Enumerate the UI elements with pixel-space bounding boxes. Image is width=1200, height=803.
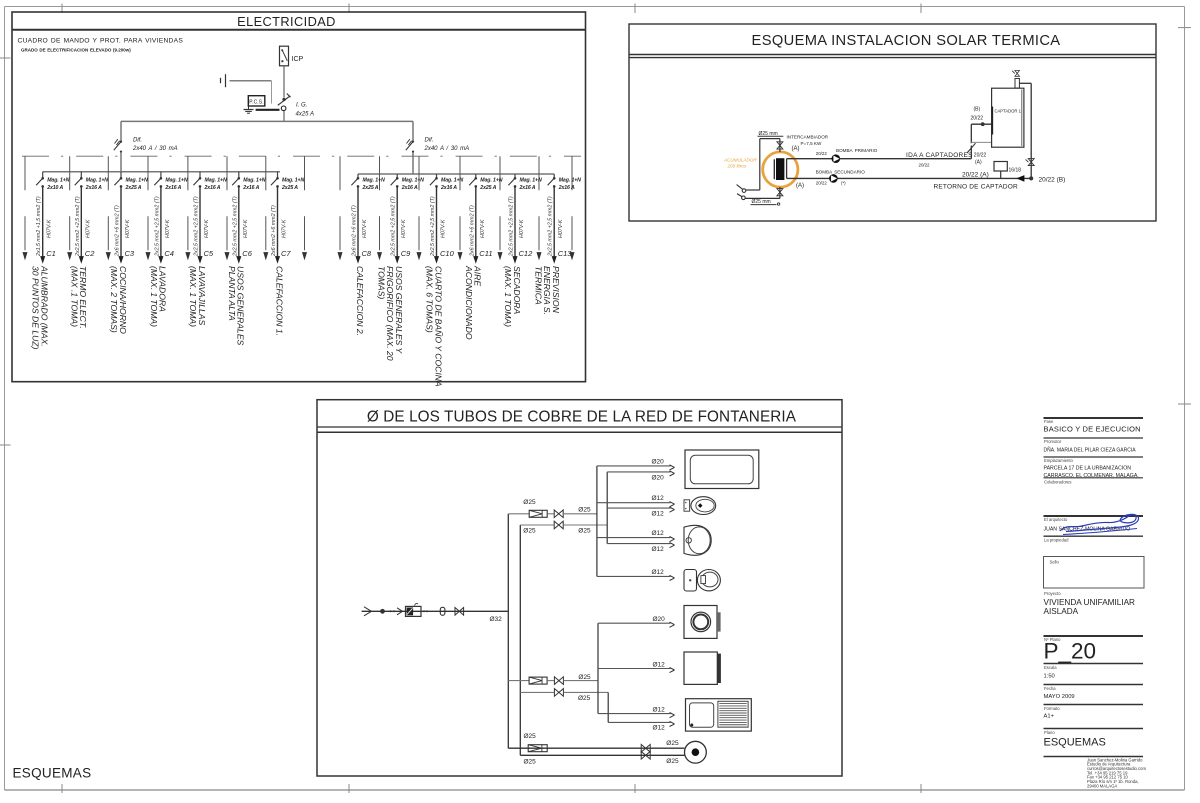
svg-text:2x40 A / 30 mA: 2x40 A / 30 mA bbox=[132, 146, 178, 152]
svg-text:2x16 A: 2x16 A bbox=[401, 185, 418, 191]
svg-text:Mag. 1+N: Mag. 1+N bbox=[559, 178, 581, 184]
svg-text:H07V-K: H07V-K bbox=[441, 219, 447, 238]
svg-text:Dif.: Dif. bbox=[425, 138, 434, 144]
svg-text:ACUMULADOR: ACUMULADOR bbox=[723, 158, 757, 163]
svg-text:C5: C5 bbox=[204, 249, 214, 258]
svg-text:Formato: Formato bbox=[1044, 706, 1060, 711]
svg-text:TOMAS): TOMAS) bbox=[376, 266, 386, 299]
svg-text:H07V-K: H07V-K bbox=[243, 219, 249, 238]
svg-text:2x6 mm2 +6 mm2 (T): 2x6 mm2 +6 mm2 (T) bbox=[115, 205, 121, 257]
svg-text:C10: C10 bbox=[440, 249, 455, 258]
svg-text:BOMBA PRIMARIO: BOMBA PRIMARIO bbox=[836, 148, 878, 153]
svg-text:20/22: 20/22 bbox=[971, 116, 984, 122]
svg-text:DÑA. MARIA DEL PILAR CIEZA GAR: DÑA. MARIA DEL PILAR CIEZA GARCIA bbox=[1044, 447, 1137, 454]
svg-text:Mag. 1+N: Mag. 1+N bbox=[86, 178, 108, 184]
svg-text:2x40 A / 30 mA: 2x40 A / 30 mA bbox=[424, 146, 470, 152]
svg-text:Ø20: Ø20 bbox=[652, 458, 665, 465]
svg-text:Dif.: Dif. bbox=[133, 138, 142, 144]
svg-text:La propiedad: La propiedad bbox=[1044, 538, 1069, 543]
svg-text:2x10 A: 2x10 A bbox=[46, 185, 63, 191]
svg-text:Plano: Plano bbox=[1044, 730, 1055, 735]
svg-text:P_20: P_20 bbox=[1044, 639, 1097, 664]
svg-text:ELECTRICIDAD: ELECTRICIDAD bbox=[237, 14, 336, 29]
svg-text:Ø20: Ø20 bbox=[652, 475, 665, 482]
svg-text:H07V-K: H07V-K bbox=[282, 219, 288, 238]
svg-text:20/22 (A): 20/22 (A) bbox=[962, 172, 989, 179]
svg-text:30 PUNTOS DE LUZ): 30 PUNTOS DE LUZ) bbox=[31, 266, 41, 350]
svg-text:20/22: 20/22 bbox=[816, 181, 828, 186]
svg-text:2x25 A: 2x25 A bbox=[281, 185, 298, 191]
svg-text:Fase: Fase bbox=[1044, 419, 1054, 424]
svg-text:2x16 A: 2x16 A bbox=[440, 185, 457, 191]
svg-text:AISLADA: AISLADA bbox=[1044, 607, 1079, 616]
svg-text:2x6 mm2 +6 mm2 (T): 2x6 mm2 +6 mm2 (T) bbox=[352, 205, 358, 257]
svg-text:Ø25: Ø25 bbox=[523, 499, 536, 506]
svg-text:Mag. 1+N: Mag. 1+N bbox=[402, 178, 424, 184]
svg-text:20/22: 20/22 bbox=[816, 151, 828, 156]
svg-text:C11: C11 bbox=[479, 249, 492, 258]
svg-text:H07V-K: H07V-K bbox=[519, 219, 525, 238]
svg-text:ACONDICIONADO: ACONDICIONADO bbox=[464, 265, 474, 340]
svg-text:Mag. 1+N: Mag. 1+N bbox=[205, 178, 227, 184]
svg-text:2x16 A: 2x16 A bbox=[164, 185, 181, 191]
svg-text:Mag. 1+N: Mag. 1+N bbox=[480, 178, 502, 184]
svg-text:Ø25: Ø25 bbox=[524, 733, 537, 740]
svg-text:Ø12: Ø12 bbox=[653, 661, 666, 668]
svg-text:H07V-K: H07V-K bbox=[85, 219, 91, 238]
svg-text:2x2,5 mm2 +2,5 mm2 (T): 2x2,5 mm2 +2,5 mm2 (T) bbox=[548, 196, 554, 257]
svg-text:(MAX. 2 TOMAS): (MAX. 2 TOMAS) bbox=[109, 266, 119, 333]
svg-text:(MAX. 1 TOMA): (MAX. 1 TOMA) bbox=[188, 266, 198, 327]
svg-text:VIVIENDA UNIFAMILIAR: VIVIENDA UNIFAMILIAR bbox=[1044, 598, 1136, 607]
svg-text:2x16 A: 2x16 A bbox=[85, 185, 102, 191]
svg-text:Ø12: Ø12 bbox=[652, 569, 665, 576]
svg-text:Mag. 1+N: Mag. 1+N bbox=[441, 178, 463, 184]
svg-text:A1+: A1+ bbox=[1044, 714, 1055, 720]
svg-text:Ø25: Ø25 bbox=[578, 528, 591, 535]
svg-text:Ø25: Ø25 bbox=[578, 507, 591, 514]
svg-text:H07V-K: H07V-K bbox=[125, 219, 131, 238]
svg-text:IDA A CAPTADORES: IDA A CAPTADORES bbox=[906, 152, 973, 159]
svg-text:2x25 A: 2x25 A bbox=[125, 185, 142, 191]
svg-text:2x2,5 mm2 +2,5 mm2 (T): 2x2,5 mm2 +2,5 mm2 (T) bbox=[391, 196, 397, 257]
svg-text:2x2,5 mm2 +2,5 mm2 (T): 2x2,5 mm2 +2,5 mm2 (T) bbox=[232, 196, 238, 257]
svg-text:C8: C8 bbox=[362, 249, 372, 258]
svg-text:2x2,5 mm2 +2,5 mm2 (T): 2x2,5 mm2 +2,5 mm2 (T) bbox=[430, 196, 436, 257]
svg-text:Emplazamiento: Emplazamiento bbox=[1044, 458, 1074, 463]
svg-text:(MAX .1 TOMA): (MAX .1 TOMA) bbox=[69, 266, 79, 327]
svg-text:H07V-K: H07V-K bbox=[401, 219, 407, 238]
svg-text:20/22: 20/22 bbox=[919, 162, 931, 167]
svg-text:Mag. 1+N: Mag. 1+N bbox=[282, 178, 304, 184]
svg-text:H07V-K: H07V-K bbox=[47, 219, 53, 238]
svg-text:Mag. 1+N: Mag. 1+N bbox=[126, 178, 148, 184]
svg-text:2x2,5 mm2 +2,5 mm2 (T): 2x2,5 mm2 +2,5 mm2 (T) bbox=[75, 196, 81, 257]
svg-text:(MAX. 6 TOMAS): (MAX. 6 TOMAS) bbox=[425, 266, 435, 333]
svg-text:C9: C9 bbox=[401, 249, 411, 258]
svg-text:H07V-K: H07V-K bbox=[362, 219, 368, 238]
svg-text:CALEFACCION 1.: CALEFACCION 1. bbox=[274, 266, 284, 336]
svg-text:Ø12: Ø12 bbox=[652, 530, 665, 537]
svg-text:INTERCAMBIADOR: INTERCAMBIADOR bbox=[787, 134, 829, 139]
svg-text:2x16 A: 2x16 A bbox=[204, 185, 221, 191]
svg-text:2x2,5 mm2 +2,5 mm2 (T): 2x2,5 mm2 +2,5 mm2 (T) bbox=[154, 196, 160, 257]
svg-text:CALEFACCION 2.: CALEFACCION 2. bbox=[355, 266, 365, 336]
svg-text:20/22 (B): 20/22 (B) bbox=[1039, 177, 1066, 184]
svg-text:29400 MALAGA: 29400 MALAGA bbox=[1087, 783, 1117, 788]
svg-text:Sello: Sello bbox=[1050, 560, 1060, 565]
svg-text:C12: C12 bbox=[519, 249, 534, 258]
svg-text:Ø12: Ø12 bbox=[652, 546, 665, 553]
svg-text:Mag. 1+N: Mag. 1+N bbox=[243, 178, 265, 184]
svg-text:4x25 A: 4x25 A bbox=[296, 112, 314, 118]
svg-text:H07V-K: H07V-K bbox=[558, 219, 564, 238]
svg-text:C7: C7 bbox=[281, 249, 291, 258]
svg-text:(MAX. 1 TOMA): (MAX. 1 TOMA) bbox=[503, 266, 513, 327]
svg-text:P.C.S.: P.C.S. bbox=[249, 100, 263, 106]
svg-text:Fecha: Fecha bbox=[1044, 686, 1056, 691]
svg-text:H07V-K: H07V-K bbox=[480, 219, 486, 238]
svg-text:Mag. 1+N: Mag. 1+N bbox=[47, 178, 69, 184]
svg-text:H07V-K: H07V-K bbox=[165, 219, 171, 238]
svg-text:CAPTADOR 1: CAPTADOR 1 bbox=[994, 109, 1021, 114]
svg-text:ESQUEMAS: ESQUEMAS bbox=[1044, 737, 1106, 749]
svg-text:Promotor: Promotor bbox=[1044, 439, 1062, 444]
svg-text:(MAX. 1 TOMA): (MAX. 1 TOMA) bbox=[149, 266, 159, 327]
svg-text:C6: C6 bbox=[242, 249, 252, 258]
svg-text:PARCELA 17 DE LA URBANIZACION: PARCELA 17 DE LA URBANIZACION bbox=[1044, 466, 1132, 472]
svg-text:16/18: 16/18 bbox=[1009, 168, 1022, 174]
svg-text:C3: C3 bbox=[125, 249, 135, 258]
svg-text:Ø12: Ø12 bbox=[653, 725, 666, 732]
svg-text:Ø25: Ø25 bbox=[523, 528, 536, 535]
svg-text:2x6 mm2 +6 mm2 (T): 2x6 mm2 +6 mm2 (T) bbox=[271, 205, 277, 257]
svg-text:C2: C2 bbox=[85, 249, 95, 258]
svg-text:2x16 A: 2x16 A bbox=[242, 185, 259, 191]
svg-text:200 litros: 200 litros bbox=[727, 164, 747, 169]
svg-text:ESQUEMAS: ESQUEMAS bbox=[13, 766, 92, 781]
svg-text:1:50: 1:50 bbox=[1044, 674, 1055, 680]
svg-text:RETORNO DE CAPTADOR: RETORNO DE CAPTADOR bbox=[934, 183, 1019, 190]
svg-text:Mag. 1+N: Mag. 1+N bbox=[165, 178, 187, 184]
svg-text:C4: C4 bbox=[164, 249, 174, 258]
svg-text:TERMICA: TERMICA bbox=[533, 266, 543, 305]
svg-text:Ø12: Ø12 bbox=[652, 511, 665, 518]
svg-text:Escala: Escala bbox=[1044, 665, 1057, 670]
svg-text:BOMBA SECUNDARIO: BOMBA SECUNDARIO bbox=[816, 169, 866, 174]
svg-text:2x6 mm2 +6 mm2 (T): 2x6 mm2 +6 mm2 (T) bbox=[469, 205, 475, 257]
svg-text:2x25 A: 2x25 A bbox=[362, 185, 379, 191]
svg-text:Ø32: Ø32 bbox=[490, 616, 503, 623]
svg-text:GRADO DE ELECTRIFICACION EL: GRADO DE ELECTRIFICACION ELEVADO (9.200w… bbox=[21, 48, 131, 53]
svg-text:I. G.: I. G. bbox=[296, 103, 307, 109]
svg-text:C13: C13 bbox=[558, 249, 573, 258]
svg-text:Ø25: Ø25 bbox=[578, 695, 591, 702]
svg-text:PLANTA ALTA: PLANTA ALTA bbox=[227, 266, 237, 321]
svg-text:C1: C1 bbox=[46, 249, 56, 258]
svg-text:2x16 A: 2x16 A bbox=[519, 185, 536, 191]
svg-text:Ø20: Ø20 bbox=[653, 616, 666, 623]
svg-text:BASICO Y DE EJECUCION: BASICO Y DE EJECUCION bbox=[1044, 425, 1141, 434]
svg-text:Ø DE LOS TUBOS DE COBRE DE LA: Ø DE LOS TUBOS DE COBRE DE LA RED DE FON… bbox=[367, 409, 797, 426]
svg-text:(A): (A) bbox=[975, 160, 982, 166]
svg-text:El arquitecto: El arquitecto bbox=[1044, 517, 1068, 522]
svg-text:MAYO 2009: MAYO 2009 bbox=[1044, 694, 1075, 700]
svg-text:Ø25: Ø25 bbox=[666, 740, 679, 747]
svg-text:ICP: ICP bbox=[292, 56, 304, 63]
svg-text:2x2,5 mm2 +2,5 mm2 (T): 2x2,5 mm2 +2,5 mm2 (T) bbox=[194, 196, 200, 257]
svg-text:2x25 A: 2x25 A bbox=[479, 185, 496, 191]
svg-text:Colaboradores: Colaboradores bbox=[1044, 480, 1071, 485]
svg-text:(A): (A) bbox=[796, 183, 804, 189]
svg-text:Ø12: Ø12 bbox=[653, 706, 666, 713]
svg-text:20/22: 20/22 bbox=[974, 153, 987, 159]
svg-text:CUADRO DE MANDO Y PROT. P: CUADRO DE MANDO Y PROT. PARA VIVIENDAS bbox=[18, 38, 184, 45]
svg-text:(A): (A) bbox=[792, 146, 800, 152]
svg-text:2x2,5 mm2 +2,5 mm2 (T): 2x2,5 mm2 +2,5 mm2 (T) bbox=[509, 196, 515, 257]
svg-text:Ø25: Ø25 bbox=[578, 674, 591, 681]
svg-text:Ø25: Ø25 bbox=[524, 758, 537, 765]
svg-text:ESQUEMA INSTALACION SOLAR TERM: ESQUEMA INSTALACION SOLAR TERMICA bbox=[752, 33, 1061, 49]
svg-text:(*): (*) bbox=[841, 181, 846, 186]
svg-text:Mag. 1+N: Mag. 1+N bbox=[363, 178, 385, 184]
svg-text:Ø25: Ø25 bbox=[666, 758, 679, 765]
svg-text:2x1,5 mm2 +1,5 mm2 (T): 2x1,5 mm2 +1,5 mm2 (T) bbox=[36, 196, 42, 257]
svg-text:Mag. 1+N: Mag. 1+N bbox=[520, 178, 542, 184]
svg-text:H07V-K: H07V-K bbox=[204, 219, 210, 238]
svg-text:P=7,5 KW: P=7,5 KW bbox=[801, 141, 822, 146]
svg-text:(B): (B) bbox=[974, 107, 981, 113]
svg-text:Proyecto: Proyecto bbox=[1044, 591, 1061, 596]
svg-text:2x16 A: 2x16 A bbox=[558, 185, 575, 191]
svg-text:Ø12: Ø12 bbox=[652, 495, 665, 502]
